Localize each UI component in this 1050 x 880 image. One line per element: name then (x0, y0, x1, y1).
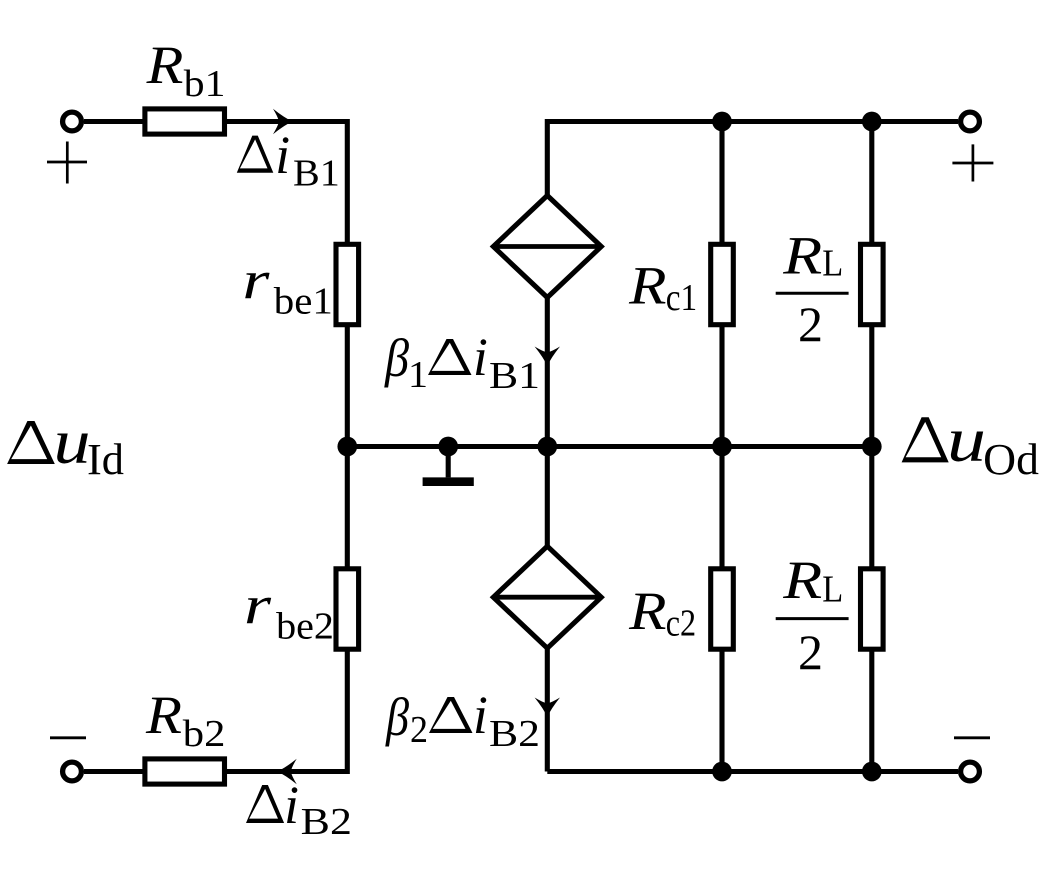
svg-text:R: R (628, 255, 667, 315)
junction node at source B1 / mid rail (537, 437, 557, 457)
current source B1 bar (493, 244, 601, 249)
wire source B1 to mid rail (545, 295, 550, 447)
resistor Rb1 (145, 109, 225, 134)
junction node Rc1 / top rail (712, 112, 732, 132)
svg-text:2: 2 (798, 624, 823, 680)
resistor r_be2 (336, 569, 359, 649)
terminal + (output top-right) (961, 112, 980, 131)
resistor Rc2 (711, 569, 734, 649)
terminal - (output bottom-right) (961, 762, 980, 781)
svg-text:r: r (242, 250, 270, 310)
label Δu_Od (902, 417, 949, 462)
svg-text:2: 2 (798, 296, 823, 352)
wire top rail (547, 122, 958, 198)
plus polarity mark (output) (952, 144, 993, 181)
svg-text:R: R (145, 685, 182, 745)
svg-text:2: 2 (410, 709, 428, 751)
current arrow Δi_B1 (273, 109, 293, 134)
fraction bar (top RL/2) (776, 292, 849, 295)
current source B2 bar (493, 595, 601, 600)
resistor Rb2 (145, 759, 225, 784)
svg-text:R: R (782, 550, 822, 610)
wire r_be1 to mid rail (345, 325, 350, 447)
wire mid rail down to r_be2 (345, 447, 350, 570)
svg-text:c2: c2 (666, 603, 696, 645)
svg-text:β: β (384, 328, 409, 388)
svg-text:B1: B1 (489, 355, 540, 397)
svg-text:B2: B2 (301, 801, 352, 843)
label Δi_B2 (246, 785, 284, 823)
junction node Rc / mid rail (712, 437, 732, 457)
svg-text:β: β (385, 687, 409, 747)
resistor r_be1 (336, 244, 359, 324)
svg-text:L: L (822, 568, 843, 610)
wire Rb1 to corner down to r_be1 (227, 122, 347, 245)
resistor RL/2 (top) (861, 244, 884, 324)
svg-text:b1: b1 (184, 63, 226, 105)
current arrow Δi_B2 (277, 759, 297, 784)
svg-text:i: i (284, 775, 299, 835)
svg-text:u: u (54, 407, 91, 477)
svg-text:be2: be2 (276, 606, 334, 648)
wire terminal to Rb1 (84, 119, 147, 124)
svg-text:Id: Id (87, 435, 124, 484)
minus polarity mark (input) (50, 736, 86, 739)
controlled current source B1 (diamond) (493, 196, 601, 298)
svg-text:Od: Od (983, 435, 1039, 484)
source current arrow (B1) (535, 347, 560, 367)
terminal - (input bottom-left) (63, 762, 82, 781)
wire source B2 to bottom rail (545, 646, 550, 772)
wire Rc2 top (719, 447, 724, 570)
minus polarity mark (output) (954, 736, 990, 739)
wire Rc1 bottom (719, 325, 724, 447)
wire bottom rail (547, 769, 958, 774)
svg-text:1: 1 (408, 354, 428, 396)
svg-text:L: L (822, 243, 843, 285)
resistor RL/2 (bottom) (861, 569, 884, 649)
svg-text:R: R (145, 35, 183, 95)
wire Rc1 top (719, 122, 724, 245)
junction node Rc2 / bottom rail (712, 762, 732, 782)
mid rail wire (347, 444, 872, 449)
label Δi_B1 (237, 136, 273, 173)
terminal + (input top-left) (63, 112, 82, 131)
junction node at r_be / mid rail (337, 437, 357, 457)
svg-text:c1: c1 (666, 277, 697, 319)
junction node at ground tap (438, 437, 458, 457)
wire RL2 bottom (869, 649, 874, 772)
svg-text:i: i (275, 125, 290, 185)
svg-text:B1: B1 (293, 153, 340, 195)
svg-text:R: R (782, 225, 822, 285)
wire mid rail to source B2 (545, 447, 550, 549)
svg-text:be1: be1 (274, 281, 333, 323)
resistor Rc1 (711, 244, 734, 324)
wire r_be2 to corner left to Rb2 (227, 649, 347, 772)
plus polarity mark (input) (47, 142, 87, 184)
source current arrow (B2) (535, 698, 560, 718)
wire RL2 top (869, 447, 874, 570)
svg-text:i: i (473, 685, 488, 745)
fraction bar (bottom RL/2) (776, 617, 849, 620)
wire Rb2 to terminal (84, 769, 147, 774)
wire RL1 bottom (869, 325, 874, 447)
junction node RL / mid rail (862, 437, 882, 457)
wire RL1 top (869, 122, 874, 245)
junction node RL2 / bottom rail (862, 762, 882, 782)
svg-text:R: R (628, 581, 667, 641)
controlled current source B2 (diamond) (493, 546, 601, 648)
svg-text:B2: B2 (489, 713, 540, 755)
junction node RL1 / top rail (862, 112, 882, 132)
svg-text:b2: b2 (183, 713, 226, 755)
svg-text:u: u (947, 405, 986, 475)
ground (446, 447, 451, 478)
wire Rc2 bottom (719, 649, 724, 772)
svg-text:i: i (473, 327, 488, 387)
svg-text:r: r (244, 575, 272, 635)
label Δu_Id (7, 421, 55, 464)
